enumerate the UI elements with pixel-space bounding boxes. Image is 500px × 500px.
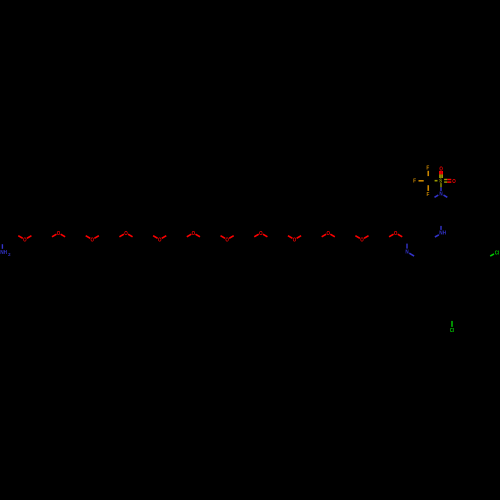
- bond C-S1 left half: [435, 180, 438, 182]
- bond Cl1-C lower left half: [490, 254, 494, 256]
- svg-text:Cl: Cl: [495, 250, 500, 256]
- bond F3-C vertical half: [427, 185, 429, 191]
- bond N3-C lower left half: [435, 235, 439, 237]
- svg-text:O: O: [23, 238, 27, 244]
- bond O3-C right half: [94, 236, 99, 239]
- svg-text:O: O: [91, 238, 95, 244]
- bond O12-C right half: [398, 234, 403, 237]
- bond O10-C right half: [330, 234, 335, 237]
- bond O1-C right half: [27, 236, 32, 239]
- bond C-O3 left half: [86, 236, 91, 239]
- bond O7-C right half: [229, 236, 234, 239]
- bond S1-N4 upper half: [440, 183, 442, 187]
- svg-text:O: O: [124, 231, 128, 237]
- double bond S1=O13 line a: [439, 171, 441, 175]
- double bond S1=O14 line b: [444, 181, 447, 183]
- bond F2-C horizontal half: [419, 180, 424, 182]
- bond Cl2-C vertical half: [451, 321, 453, 327]
- bond F1-C vertical half: [427, 171, 429, 176]
- svg-text:O: O: [259, 231, 263, 237]
- bond C-O12 left half: [389, 234, 394, 237]
- bond N4-C ring lower right half: [444, 195, 448, 197]
- svg-text:NH: NH: [439, 230, 446, 236]
- svg-text:O: O: [225, 238, 229, 244]
- bond C-N3 vertical half: [440, 226, 442, 230]
- bond C-O7 left half: [221, 236, 226, 239]
- svg-text:O: O: [57, 231, 61, 237]
- bond N4-C ring lower left half: [435, 195, 439, 197]
- bond C-O5 left half: [153, 236, 158, 239]
- bond O11-C right half: [364, 236, 369, 239]
- svg-text:O: O: [360, 238, 364, 244]
- svg-text:O: O: [394, 231, 398, 237]
- bond C-O1 left half: [18, 236, 23, 239]
- bond C-O11 left half: [355, 236, 360, 239]
- bond C-O9 left half: [288, 236, 293, 239]
- svg-text:O: O: [452, 179, 456, 185]
- svg-text:O: O: [192, 231, 196, 237]
- svg-text:NH: NH: [0, 250, 7, 256]
- bond C-N2 vertical half: [406, 244, 408, 249]
- bond N1-C vertical half: [1, 244, 3, 249]
- svg-text:N: N: [439, 192, 442, 198]
- svg-text:N: N: [405, 249, 408, 255]
- svg-text:O: O: [293, 238, 297, 244]
- svg-text:Cl: Cl: [450, 328, 455, 334]
- double bond S1=O13 line b: [441, 171, 443, 175]
- bond O6-C right half: [195, 234, 200, 237]
- bond C-O4 left half: [119, 234, 124, 237]
- bond C-O6 left half: [187, 234, 192, 237]
- bond C-O2 left half: [52, 234, 57, 237]
- double bond S1=O14 line a: [444, 179, 447, 181]
- bond S-N4 lower half: [440, 187, 442, 191]
- bond O8-C right half: [263, 234, 268, 237]
- bond N2-C lower right half: [409, 253, 414, 256]
- bond C-O10 left half: [322, 234, 327, 237]
- svg-text:O: O: [326, 231, 330, 237]
- bond C-O8 left half: [254, 234, 258, 237]
- bond O5-C right half: [162, 236, 167, 239]
- bond O2-C right half: [61, 234, 66, 237]
- bond O4-C right half: [128, 234, 133, 237]
- bond O9-C right half: [297, 236, 302, 239]
- svg-text:O: O: [158, 238, 162, 244]
